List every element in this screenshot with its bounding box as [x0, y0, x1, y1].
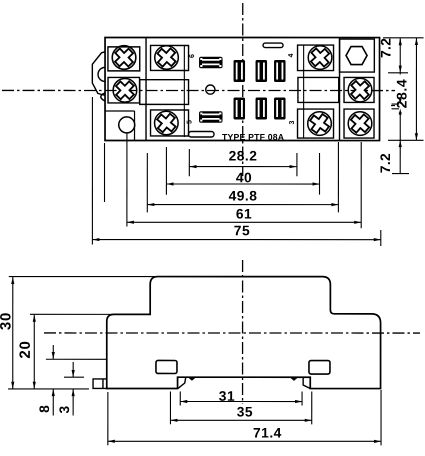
- extension 3 top: [64, 376, 84, 378]
- extension 40 left: [165, 147, 167, 195]
- svg-text:5: 5: [187, 120, 194, 124]
- svg-text:71.4: 71.4: [253, 426, 282, 441]
- contact slot V1 top: [234, 60, 246, 82]
- svg-text:30: 30: [0, 312, 14, 330]
- extension 31 right: [301, 392, 303, 406]
- terminal frame r3c4: [344, 109, 374, 138]
- svg-text:31: 31: [219, 389, 235, 404]
- extension hole left: [126, 133, 128, 226]
- foot left: [93, 379, 107, 389]
- socket body outline (top view): [105, 37, 380, 140]
- terminal frame r2c1: [108, 77, 140, 103]
- mount hole cell lines: [105, 110, 135, 112]
- extension 75 right: [380, 230, 382, 246]
- svg-text:75: 75: [234, 223, 250, 238]
- extension 35 left: [169, 391, 171, 424]
- svg-text:3: 3: [57, 405, 72, 413]
- slim slot top: [263, 43, 283, 48]
- extension 71.4 left: [107, 392, 109, 445]
- arrows right inner: [399, 38, 402, 45]
- mounting hole circle: [119, 117, 135, 133]
- arrows 8: [52, 352, 55, 359]
- body profile (side view): [107, 277, 381, 389]
- extension bottom left: [8, 388, 89, 390]
- extension 30 top: [9, 276, 158, 278]
- tab lower bump: [101, 93, 105, 101]
- dim line 71.4: [108, 440, 381, 442]
- arrows right outer: [415, 38, 418, 45]
- dim line 40: [167, 183, 320, 185]
- tab bump arc: [98, 67, 105, 81]
- hex cell: [340, 39, 375, 72]
- extension 61 right: [360, 142, 362, 228]
- dim line right inner: [399, 38, 401, 173]
- contact slot V3 bottom: [274, 98, 286, 120]
- arrows 3: [72, 370, 75, 377]
- extension 71.4 right: [380, 390, 382, 445]
- centerline vertical bottom view: [242, 260, 244, 404]
- contact slot H top: [199, 57, 223, 69]
- terminal frame r1c3: [298, 45, 334, 71]
- col3 inner edge line: [303, 45, 305, 138]
- screw r3c4: [347, 110, 374, 137]
- dim text 28.4: [394, 75, 410, 113]
- col2 inner edge line: [183, 45, 185, 137]
- dim line 35: [170, 419, 311, 421]
- dim line 30: [12, 277, 14, 389]
- screw r3c2: [153, 110, 179, 136]
- extension right bottom: [388, 139, 424, 141]
- left hook: [178, 377, 186, 388]
- terminal frame r3c3: [298, 109, 334, 138]
- dim line 61: [127, 221, 361, 223]
- centerline horizontal top view: [2, 89, 396, 91]
- dim line 28.2: [190, 166, 297, 168]
- terminal frame r3c2: [151, 110, 189, 136]
- recess band left: [140, 80, 189, 105]
- extension 28.2 right: [296, 153, 298, 176]
- terminal frame r1c1: [108, 47, 140, 71]
- screw r1c3: [307, 44, 334, 71]
- hole rect right: [309, 361, 330, 375]
- contact slot V2 bottom: [256, 98, 268, 120]
- recess band right: [298, 77, 339, 102]
- tick marks 28.4 lower: [392, 104, 400, 109]
- dim line 31: [180, 400, 302, 402]
- dim 3 upper segment: [72, 362, 74, 377]
- terminal frame r2c4: [344, 77, 374, 102]
- extension right 173.5: [392, 173, 409, 175]
- screw r3c3: [306, 110, 332, 136]
- right hook: [303, 377, 310, 388]
- extension 8 top: [46, 358, 107, 360]
- extension right 72.8: [388, 72, 408, 74]
- screw r1c2: [153, 44, 180, 71]
- svg-text:7.2: 7.2: [379, 38, 394, 58]
- extension 49.8 right: [337, 142, 339, 212]
- dim 3 lower segment: [72, 389, 74, 415]
- dim line 49.8: [147, 204, 338, 206]
- extension tab left: [91, 97, 93, 245]
- extension body left: [104, 143, 106, 202]
- arrows 35: [170, 419, 177, 422]
- svg-text:6: 6: [189, 54, 196, 58]
- mounting tab left: [92, 52, 105, 96]
- channel bump right: [290, 378, 297, 381]
- dim 8 upper segment: [52, 345, 54, 359]
- screw r2c1: [112, 77, 139, 104]
- screw r1c1: [111, 44, 138, 71]
- hex hole: [346, 47, 367, 65]
- svg-text:35: 35: [237, 405, 253, 420]
- centerline horizontal bottom view: [44, 332, 420, 334]
- contact slot H bottom: [199, 111, 223, 123]
- svg-text:28.2: 28.2: [229, 149, 258, 164]
- svg-text:61: 61: [236, 207, 252, 222]
- extension 35 right: [311, 392, 313, 425]
- extension 31 left: [179, 391, 181, 405]
- contact slot V3 top: [274, 60, 286, 82]
- svg-text:40: 40: [236, 170, 252, 185]
- svg-text:20: 20: [17, 340, 34, 358]
- svg-text:3: 3: [289, 120, 296, 124]
- center pilot hole: [206, 85, 215, 94]
- contact slot V1 bottom: [234, 98, 246, 120]
- hole rect left: [156, 360, 177, 373]
- terminal frame r1c2: [151, 45, 189, 70]
- arrows 71.4: [108, 440, 115, 443]
- dim 8 lower segment: [52, 389, 54, 415]
- divider left: [145, 37, 147, 140]
- extension 49.8 left: [146, 153, 148, 212]
- centerline vertical top view: [242, 3, 244, 176]
- contact slot V2 top: [256, 60, 268, 82]
- arrows 30: [11, 277, 14, 284]
- screw r2c4: [347, 77, 374, 104]
- arrows 31: [180, 400, 187, 403]
- svg-text:49.8: 49.8: [229, 189, 258, 204]
- extension right top: [383, 37, 424, 39]
- svg-text:TYPE PTF 08A: TYPE PTF 08A: [222, 132, 285, 142]
- slim slot bottom: [189, 131, 215, 137]
- extension 40 right: [319, 153, 321, 195]
- extension 20 top: [30, 313, 113, 315]
- dim line right outer: [415, 38, 417, 140]
- extension right 105.5: [391, 105, 406, 107]
- divider right: [339, 38, 341, 141]
- dim line 75: [92, 239, 380, 241]
- svg-text:8: 8: [37, 405, 52, 413]
- extension 28.2 left: [188, 149, 190, 176]
- arrows 20: [33, 315, 36, 322]
- dim line 20: [33, 315, 35, 389]
- channel bump left: [188, 378, 195, 381]
- svg-text:4: 4: [288, 53, 295, 57]
- svg-text:7.2: 7.2: [378, 153, 393, 173]
